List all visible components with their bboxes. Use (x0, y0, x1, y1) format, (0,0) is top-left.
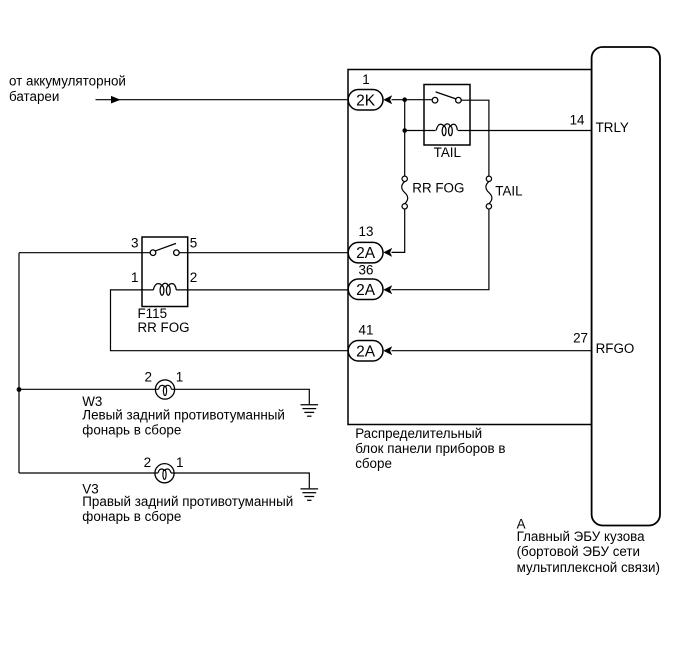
svg-text:41: 41 (359, 323, 374, 338)
arrow battery (111, 96, 121, 104)
svg-text:14: 14 (570, 112, 585, 127)
wire W3 branch (19, 389, 309, 404)
svg-text:TAIL: TAIL (434, 145, 461, 160)
wire 2K to junction (392, 99, 433, 101)
wire switch to TAIL fuse (461, 100, 489, 176)
bulb W3 (155, 380, 174, 399)
svg-text:RR FOG: RR FOG (412, 181, 464, 196)
ECU A box (592, 47, 660, 526)
svg-text:2A: 2A (356, 282, 376, 299)
connector 2A pin36 (348, 279, 383, 300)
svg-text:2: 2 (190, 270, 198, 285)
wire relay F115 pin3 to left bus (19, 252, 150, 254)
junction block (Распределительный блок) box (348, 70, 592, 425)
svg-text:2A: 2A (356, 343, 376, 360)
svg-text:2A: 2A (356, 245, 376, 262)
relay F115 switch (150, 243, 179, 255)
wire pin13 to relay F115 pin5 (179, 252, 348, 254)
connector 2A pin13 (348, 242, 383, 263)
wire relay F115 pin1 to pin41 (111, 290, 349, 351)
svg-text:1: 1 (131, 270, 139, 285)
svg-text:Распределительный: Распределительный (355, 426, 482, 441)
connector 2K (348, 90, 383, 111)
relay F115 coil (153, 283, 176, 295)
wire RR FOG fuse to pin 13 (392, 209, 405, 252)
svg-text:13: 13 (359, 224, 374, 239)
arrow into 2A pin13 (383, 248, 392, 257)
wire coil to TRLY pin 14 (458, 130, 592, 132)
arrow into 2A pin41 (383, 346, 392, 355)
svg-text:от аккумуляторной: от аккумуляторной (9, 74, 126, 89)
wire TAIL fuse to pin 36 (392, 209, 489, 290)
svg-text:2: 2 (144, 455, 152, 470)
svg-text:батареи: батареи (9, 89, 59, 104)
svg-text:фонарь в сборе: фонарь в сборе (82, 509, 181, 524)
svg-text:(бортовой ЭБУ сети: (бортовой ЭБУ сети (517, 544, 640, 559)
arrow into 2K (383, 95, 392, 104)
connector 2A pin41 (348, 341, 383, 362)
relay TAIL box (424, 85, 470, 146)
svg-text:2K: 2K (356, 92, 376, 109)
svg-text:RR FOG: RR FOG (138, 320, 190, 335)
svg-text:TRLY: TRLY (596, 120, 629, 135)
svg-text:TAIL: TAIL (495, 184, 522, 199)
ground W3 (301, 405, 319, 416)
bulb V3 (155, 464, 174, 483)
svg-text:фонарь в сборе: фонарь в сборе (82, 423, 181, 438)
svg-text:Главный ЭБУ кузова: Главный ЭБУ кузова (517, 529, 646, 544)
ground V3 (301, 489, 319, 500)
svg-text:F115: F115 (138, 306, 168, 321)
relay TAIL switch (432, 92, 461, 103)
wire vertical RR FOG branch (404, 100, 406, 177)
wire V3 branch (19, 473, 309, 488)
svg-text:блок панели приборов в: блок панели приборов в (355, 441, 505, 456)
wire battery feed (96, 99, 349, 101)
svg-text:мультиплексной связи): мультиплексной связи) (517, 560, 660, 575)
wire left bus vertical (18, 253, 20, 473)
node left bus W3 branch (17, 387, 22, 392)
fuse RR FOG (402, 176, 408, 209)
wire RFGO pin 27 to pin 41 (392, 350, 592, 352)
wire junction to coil (405, 130, 436, 132)
svg-text:сборе: сборе (355, 456, 392, 471)
node junction coil (402, 128, 407, 133)
svg-text:36: 36 (359, 262, 374, 277)
svg-text:3: 3 (131, 236, 139, 251)
relay F115 box (142, 237, 188, 307)
fuse TAIL (486, 176, 492, 209)
svg-text:27: 27 (573, 330, 588, 345)
svg-text:1: 1 (176, 370, 184, 385)
relay TAIL coil (436, 124, 457, 136)
svg-text:1: 1 (362, 72, 369, 87)
node junction top (402, 97, 407, 102)
svg-text:1: 1 (176, 455, 184, 470)
svg-text:Правый задний противотуманный: Правый задний противотуманный (82, 494, 293, 509)
svg-text:5: 5 (190, 236, 198, 251)
svg-text:2: 2 (144, 370, 152, 385)
arrow into 2A pin36 (383, 285, 392, 294)
svg-text:Левый задний противотуманный: Левый задний противотуманный (82, 408, 285, 423)
svg-text:RFGO: RFGO (596, 341, 635, 356)
wire pin36 to relay F115 pin2 (176, 289, 348, 291)
